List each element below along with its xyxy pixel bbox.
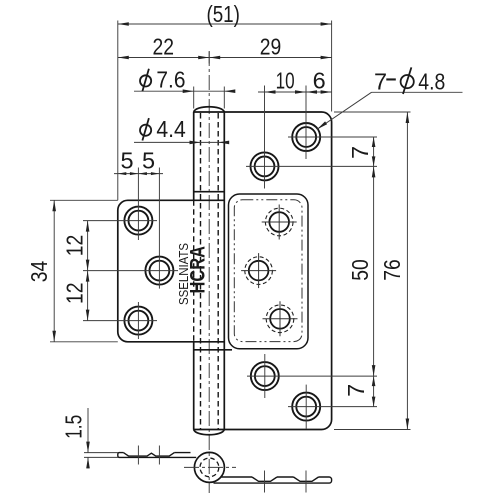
dimension (51)	[118, 21, 332, 201]
stamp ARCH	[187, 246, 210, 294]
dimension phi4.4	[134, 141, 229, 145]
svg-text:5: 5	[120, 147, 133, 173]
wire barrel body	[194, 107, 225, 435]
dimension 12 12	[86, 221, 90, 321]
svg-text:4.4: 4.4	[156, 116, 185, 142]
svg-text:29: 29	[260, 33, 282, 59]
svg-text:4.8: 4.8	[418, 68, 445, 94]
node hole centerlines	[83, 86, 377, 429]
hole L1	[124, 207, 152, 235]
hole L3	[124, 307, 152, 335]
wire left-leaf outline	[118, 200, 225, 341]
dimension 10 / 6	[258, 90, 332, 94]
dimension phi7.6	[134, 87, 235, 109]
svg-text:12: 12	[62, 282, 88, 304]
dimension 7-phi4.8 leader	[317, 92, 463, 129]
wire barrel hidden edge	[193, 200, 195, 341]
dimension 7 / 50 / 7 right chain	[372, 137, 376, 407]
svg-text:10: 10	[276, 67, 295, 93]
dimension 1.5	[84, 408, 118, 469]
svg-text:7.6: 7.6	[156, 67, 185, 93]
svg-text:1.5: 1.5	[60, 415, 86, 439]
dimension 22 / 29	[118, 52, 332, 64]
hole pad-middle	[241, 253, 276, 288]
wire bottom-view knuckle circle	[184, 452, 236, 482]
wire pad fold chain line	[234, 200, 302, 342]
svg-text:SSELNIATS: SSELNIATS	[177, 243, 191, 305]
svg-text:6: 6	[313, 67, 326, 93]
svg-text:34: 34	[26, 261, 52, 283]
dimension 5 5	[114, 172, 163, 175]
wire bottom-view left bar	[118, 453, 196, 458]
node bottom-view hole centerlines	[138, 446, 306, 493]
svg-text:50: 50	[347, 259, 373, 281]
wire pin hidden lines	[201, 113, 219, 429]
svg-text:12: 12	[62, 235, 88, 257]
hole R-top-right	[292, 123, 320, 151]
svg-text:22: 22	[152, 33, 174, 59]
dimension 76	[334, 112, 411, 430]
hole pad-bottom	[263, 301, 298, 336]
wire right-leaf outline	[224, 112, 331, 430]
node centerline pin axis	[208, 51, 210, 493]
dimension 34	[50, 200, 118, 341]
svg-text:7: 7	[343, 384, 369, 397]
wire bottom-view right bar	[214, 477, 332, 483]
svg-text:(51): (51)	[206, 1, 240, 27]
wire knuckle joint lines	[194, 192, 232, 350]
wire raised pad outline	[229, 194, 309, 349]
hole L2	[145, 257, 173, 285]
hole R-bottom-left	[251, 362, 279, 390]
svg-text:7: 7	[347, 146, 373, 159]
svg-text:76: 76	[379, 259, 405, 281]
hole pad-top	[262, 205, 297, 240]
svg-text:7: 7	[374, 68, 387, 94]
hole R-top-left	[251, 152, 279, 180]
stamp STAINLESS	[177, 243, 191, 305]
svg-text:5: 5	[142, 147, 155, 173]
hole R-bottom-right	[292, 393, 320, 421]
